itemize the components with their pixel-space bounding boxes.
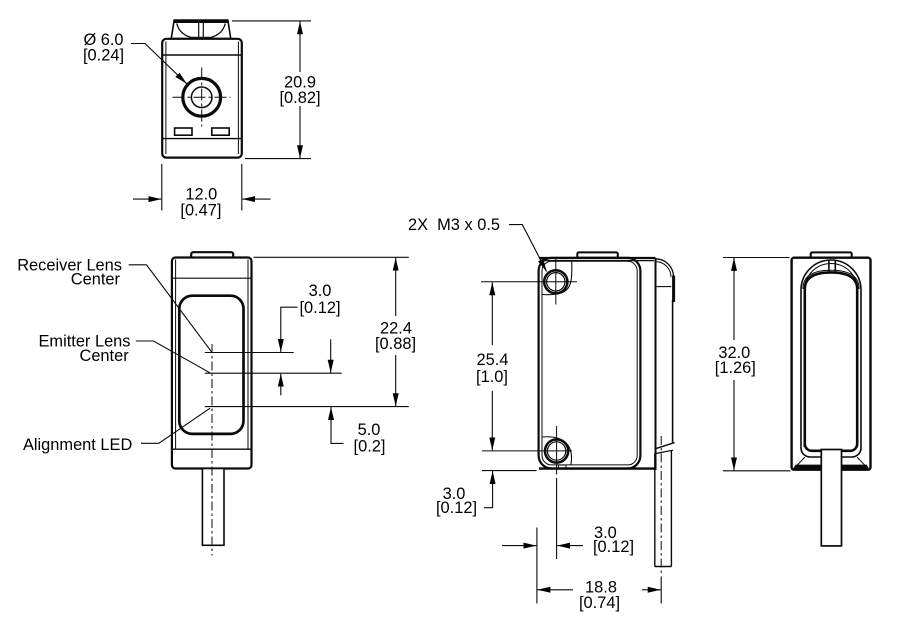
dimension 3.0 [0.12] horizontal extension line left bbox=[536, 528, 538, 604]
dimension 5.0 up arrow with elbow bbox=[331, 407, 344, 443]
dimension 25.4 [1.0] dimension line with arrows bbox=[491, 282, 493, 345]
side view bottom mounting hole inner bbox=[547, 442, 565, 460]
dimension 18.8 [0.74] extension line right bbox=[660, 577, 662, 604]
front view receiver center line bbox=[205, 352, 294, 354]
side view top edge strip bbox=[539, 257, 656, 259]
side view top hole boss contour bbox=[542, 261, 572, 294]
svg-text:[0.12]: [0.12] bbox=[593, 538, 634, 556]
right view body outline bbox=[792, 258, 871, 470]
dimension 3.0 [0.12] horizontal extension line right bbox=[556, 478, 558, 559]
leader emitter lens bbox=[136, 341, 210, 373]
top view indicator window left bbox=[175, 128, 192, 135]
dimension 3.0 vertical up arrow with elbow bbox=[484, 471, 493, 508]
leader 2X M3 to top hole bbox=[509, 225, 547, 272]
front view body inner edge left bbox=[175, 260, 177, 450]
side view right shoulder line bbox=[656, 286, 672, 288]
svg-text:Alignment LED: Alignment LED bbox=[23, 436, 132, 454]
svg-text:3.0: 3.0 bbox=[309, 282, 332, 300]
right view lens dome bbox=[805, 272, 857, 450]
front view top tab bbox=[191, 252, 233, 258]
dimension 3.0 [0.12] vertical bottom-left extension line bbox=[482, 470, 537, 472]
side view top right corner inner arc bbox=[656, 262, 672, 278]
dimension 20.9 [0.82] extension line bottom bbox=[245, 158, 311, 160]
side view top hole horizontal centerline / extension bbox=[481, 281, 577, 283]
svg-text:[1.0]: [1.0] bbox=[476, 368, 508, 386]
front view vertical centerline bbox=[211, 344, 213, 556]
svg-text:[0.74]: [0.74] bbox=[579, 594, 620, 612]
top view body inner edge right bbox=[237, 42, 239, 155]
right view skirt right diagonal bbox=[857, 457, 865, 465]
svg-text:Center: Center bbox=[79, 347, 129, 365]
right view skirt left diagonal bbox=[797, 457, 805, 465]
svg-text:5.0: 5.0 bbox=[358, 421, 381, 439]
svg-text:[0.88]: [0.88] bbox=[375, 335, 416, 353]
top view connector cap black bar bbox=[173, 19, 228, 23]
side view bottom hole horizontal centerline / extension bbox=[482, 450, 572, 452]
top view upper seam line bbox=[163, 54, 242, 56]
top view body outline bbox=[162, 39, 242, 158]
top view body inner edge left bbox=[165, 42, 167, 155]
side view mounting plate outline bbox=[539, 258, 641, 469]
svg-text:[0.24]: [0.24] bbox=[83, 47, 124, 65]
side view top mounting hole inner bbox=[547, 273, 565, 291]
dimension 18.8 [0.74] arrows bbox=[537, 589, 573, 591]
side view cable sheath upper diagonal bbox=[656, 443, 674, 449]
svg-text:25.4: 25.4 bbox=[477, 351, 509, 369]
side view top mounting hole outer bbox=[544, 270, 567, 293]
side view cable bottom edge bbox=[655, 566, 672, 568]
dimension 32.0 [1.26] extension line bottom bbox=[723, 470, 791, 472]
side view mounting plate inner line bbox=[542, 261, 637, 465]
dimension 3.0 elbow and down arrow bbox=[281, 307, 298, 352]
side view cable right edge bbox=[670, 451, 672, 567]
right view shell bottom corners bbox=[801, 448, 861, 457]
svg-text:[0.82]: [0.82] bbox=[279, 89, 320, 107]
top view cap center rib lines bbox=[198, 23, 200, 38]
right view shell inner arch line bbox=[805, 264, 858, 290]
top view cap funnel left curve bbox=[177, 24, 191, 38]
side view cable sheath lower diagonal bbox=[656, 450, 673, 453]
side view bottom hole boss contour bbox=[542, 437, 572, 465]
right view dome outer parallel arc bbox=[803, 270, 859, 289]
side view top hole vertical centerline bbox=[555, 259, 557, 305]
top view indicator window right bbox=[212, 128, 229, 135]
svg-text:[0.12]: [0.12] bbox=[436, 499, 477, 517]
dimension 32.0 [1.26] dimension line with arrows bbox=[733, 258, 735, 340]
side view bottom hole vertical centerline bbox=[556, 426, 558, 475]
top view lower seam line bbox=[163, 138, 242, 140]
top view cap funnel bottom line bbox=[190, 36, 212, 38]
dimension 22.4 [0.88] dimension line with arrows bbox=[395, 258, 397, 316]
leader arrow for Ø6.0 to lens circle bbox=[131, 44, 187, 84]
front view lens window bbox=[179, 296, 243, 434]
svg-text:[0.47]: [0.47] bbox=[180, 202, 221, 220]
side view cable left edge bbox=[654, 454, 656, 567]
side view right edge thick segment bbox=[672, 276, 675, 303]
top view cap funnel right curve bbox=[212, 24, 226, 38]
front view upper seam line bbox=[172, 277, 251, 279]
dimension 20.9 [0.82] extension line top bbox=[232, 20, 311, 22]
right view cable bbox=[821, 450, 841, 546]
dimension 32.0 [1.26] extension line top bbox=[723, 257, 790, 259]
dimension 22.4 [0.88] top extension line bbox=[254, 256, 409, 258]
side view bottom edge strip bbox=[539, 467, 656, 469]
dimension 3.0 up arrow bbox=[280, 374, 282, 396]
dimension 3.0 horizontal arrows bbox=[502, 545, 536, 547]
top view lens crosshair horizontal centerline bbox=[173, 96, 231, 98]
side view cable centerline bbox=[660, 436, 662, 574]
front view body outline bbox=[172, 258, 252, 469]
right view bottom dark band bbox=[792, 465, 869, 470]
side view back edge vertical bbox=[672, 300, 674, 443]
side view top inner edge line bbox=[541, 260, 654, 262]
svg-text:[0.12]: [0.12] bbox=[299, 299, 340, 317]
front view alignment LED center line bbox=[205, 406, 409, 408]
top view lens inner circle bbox=[191, 87, 212, 108]
top view lens outer circle bbox=[183, 78, 221, 116]
svg-text:[1.26]: [1.26] bbox=[715, 359, 756, 377]
side view top right corner outer arc bbox=[656, 259, 674, 277]
top view connector cap trapezoid bbox=[171, 21, 230, 38]
right view shell outer arch bbox=[801, 260, 861, 448]
right view keystone lines bbox=[828, 260, 830, 273]
dimension 12.0 [0.47] arrows bbox=[133, 198, 161, 200]
side view bottom hole boss notch bbox=[559, 465, 567, 469]
right view top tab bbox=[811, 252, 852, 258]
top view lens crosshair vertical centerline bbox=[201, 68, 203, 127]
front view cable bbox=[202, 469, 224, 546]
dimension 12.0 [0.47] extension lines bbox=[161, 164, 163, 211]
side view body front edge vertical bbox=[655, 258, 657, 470]
leader receiver lens bbox=[129, 265, 212, 352]
front view lower seam line bbox=[172, 448, 251, 450]
side view top tab bbox=[577, 252, 618, 257]
dimension 20.9 [0.82] dimension line with arrows bbox=[299, 21, 301, 72]
leader alignment LED bbox=[141, 408, 210, 443]
side view bottom mounting hole outer bbox=[545, 439, 568, 462]
front view body inner edge right bbox=[247, 260, 249, 450]
top view connector cap seat line bbox=[170, 37, 232, 39]
svg-text:2X M3 x 0.5: 2X M3 x 0.5 bbox=[408, 216, 500, 234]
svg-text:Center: Center bbox=[71, 271, 121, 289]
svg-text:[0.2]: [0.2] bbox=[354, 438, 386, 456]
front view emitter center line bbox=[205, 372, 342, 374]
dimension 5.0 down arrow bbox=[330, 339, 332, 372]
